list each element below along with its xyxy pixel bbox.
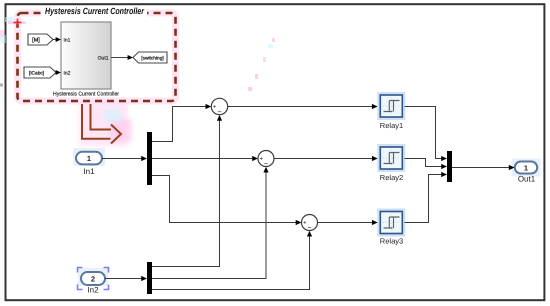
svg-text:Hysteresis Current Controller: Hysteresis Current Controller [45, 6, 144, 16]
svg-text:Hysteresis Current Controller: Hysteresis Current Controller [53, 91, 119, 98]
svg-text:1: 1 [524, 163, 528, 172]
svg-text:Relay1: Relay1 [380, 121, 404, 130]
svg-text:[switching]: [switching] [141, 56, 163, 62]
svg-text:1: 1 [87, 154, 91, 163]
svg-text:[ICabc]: [ICabc] [29, 71, 44, 77]
svg-text:Relay2: Relay2 [380, 173, 404, 182]
svg-text:2: 2 [91, 275, 95, 284]
svg-text:[M]: [M] [32, 38, 40, 44]
svg-text:In1: In1 [64, 38, 71, 44]
svg-text:In1: In1 [83, 167, 95, 176]
svg-text:In2: In2 [87, 285, 99, 294]
svg-text:Out1: Out1 [98, 55, 109, 61]
svg-text:Out1: Out1 [518, 174, 536, 183]
svg-text:In2: In2 [64, 71, 71, 77]
svg-text:Relay3: Relay3 [380, 236, 404, 245]
